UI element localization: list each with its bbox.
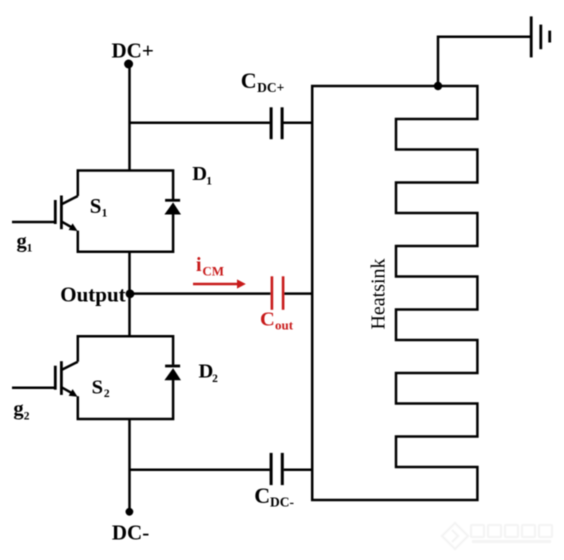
svg-text:S: S (90, 194, 102, 218)
svg-text:2: 2 (24, 410, 30, 422)
svg-text:2: 2 (212, 373, 218, 385)
svg-text:D: D (199, 361, 214, 383)
svg-text:C: C (241, 68, 257, 93)
svg-text:out: out (275, 318, 294, 333)
svg-text:i: i (196, 254, 202, 276)
svg-text:Output: Output (60, 283, 125, 307)
svg-text:DC+: DC+ (112, 38, 154, 62)
svg-text:DC+: DC+ (257, 80, 284, 95)
svg-text:S: S (92, 377, 103, 399)
svg-text:1: 1 (27, 243, 33, 255)
svg-text:Heatsink: Heatsink (368, 258, 390, 329)
svg-text:D: D (192, 163, 207, 185)
svg-text:2: 2 (104, 388, 110, 400)
svg-text:DC-: DC- (112, 520, 149, 544)
svg-text:1: 1 (102, 208, 108, 220)
svg-text:C: C (260, 309, 275, 331)
svg-text:1: 1 (206, 175, 212, 187)
svg-text:CM: CM (202, 264, 224, 279)
svg-text:C: C (254, 483, 270, 508)
svg-text:DC-: DC- (270, 495, 294, 510)
